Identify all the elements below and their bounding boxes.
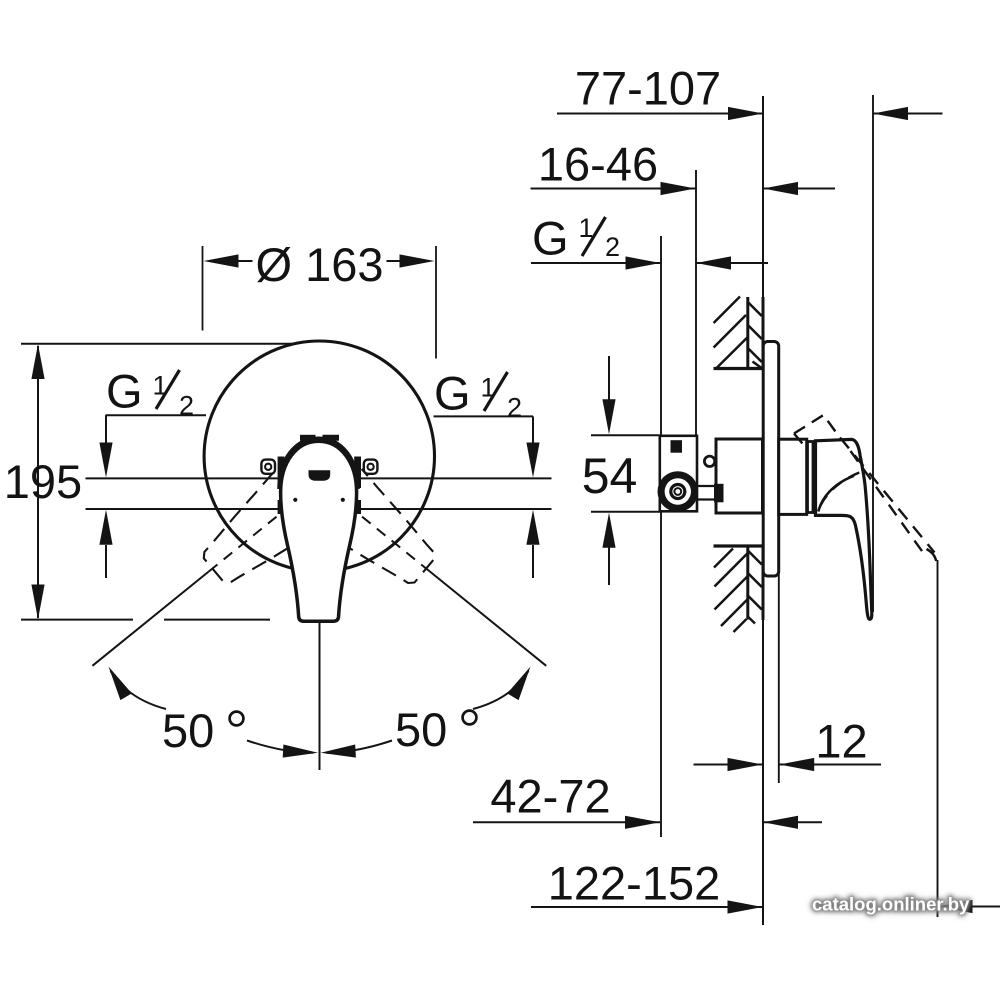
svg-text:G: G [106,365,143,418]
svg-text:12: 12 [815,715,867,768]
svg-text:77-107: 77-107 [575,62,721,115]
svg-text:16-46: 16-46 [538,138,658,191]
svg-text:G: G [434,367,471,420]
svg-text:54: 54 [582,448,638,504]
svg-text:G: G [532,212,569,265]
svg-text:195: 195 [4,455,82,508]
svg-text:2: 2 [507,393,522,423]
svg-text:50: 50 [162,704,214,757]
svg-text:122-152: 122-152 [548,857,721,910]
svg-text:2: 2 [605,232,620,262]
svg-text:catalog.onliner.by: catalog.onliner.by [812,894,970,915]
svg-text:42-72: 42-72 [490,770,610,823]
svg-text:50: 50 [395,703,447,756]
svg-text:2: 2 [179,391,194,421]
svg-text:Ø 163: Ø 163 [255,238,383,291]
